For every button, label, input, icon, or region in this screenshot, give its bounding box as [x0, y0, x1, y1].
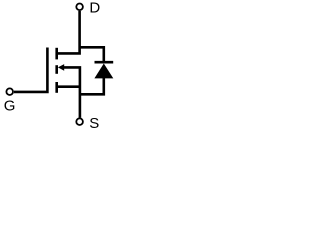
svg-text:G: G — [4, 97, 16, 114]
svg-text:S: S — [89, 115, 99, 132]
svg-text:D: D — [89, 0, 100, 16]
